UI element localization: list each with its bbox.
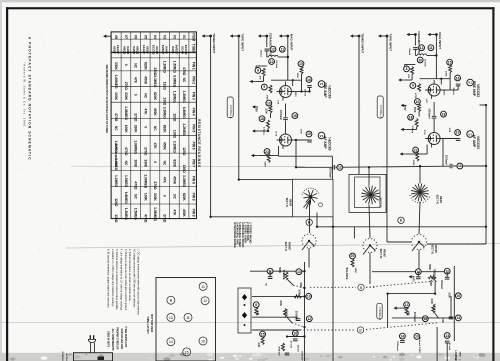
svg-text:100K: 100K — [298, 289, 300, 295]
svg-text:10: 10 — [267, 101, 271, 105]
svg-text:470K: 470K — [265, 95, 268, 101]
svg-text:MAG INPUT: MAG INPUT — [289, 34, 293, 51]
svg-text:1.5MEG: 1.5MEG — [124, 175, 128, 188]
svg-text:19: 19 — [307, 132, 311, 136]
svg-text:NC: NC — [163, 161, 167, 166]
svg-text:470Ω: 470Ω — [134, 181, 138, 190]
svg-text:270Ω: 270Ω — [134, 113, 138, 122]
svg-text:PIN 4: PIN 4 — [192, 108, 196, 116]
svg-text:6: 6 — [400, 219, 402, 223]
svg-text:RESISTANCE READINGS: RESISTANCE READINGS — [197, 119, 201, 167]
svg-text:TAPE INPUT: TAPE INPUT — [388, 34, 392, 52]
svg-text:TUBE: TUBE — [192, 44, 196, 53]
svg-text:NC: NC — [134, 63, 138, 68]
svg-text:6.8MEG: 6.8MEG — [182, 107, 186, 120]
svg-text:TUNER INPUT: TUNER INPUT — [212, 33, 216, 53]
svg-text:4. MONAURAL PHONO: 4. MONAURAL PHONO — [241, 222, 244, 247]
svg-text:470Ω: 470Ω — [143, 214, 147, 223]
svg-text:14: 14 — [456, 316, 460, 320]
svg-text:PIN 9: PIN 9 — [192, 209, 196, 217]
svg-text:100K: 100K — [448, 292, 450, 298]
svg-text:200mmf: 200mmf — [440, 280, 442, 289]
svg-text:20: 20 — [351, 254, 355, 258]
svg-text:PIN 3: PIN 3 — [192, 92, 196, 100]
svg-text:⊗: ⊗ — [169, 299, 172, 303]
svg-text:1.08MEG: 1.08MEG — [153, 207, 157, 221]
svg-text:TUNER INPUT: TUNER INPUT — [360, 33, 364, 53]
svg-text:450K: 450K — [163, 142, 167, 151]
svg-text:820K: 820K — [153, 92, 157, 101]
svg-text:AF AMP: AF AMP — [323, 136, 327, 149]
svg-text:470Ω: 470Ω — [124, 147, 128, 156]
svg-text:100K: 100K — [430, 298, 432, 304]
svg-text:16: 16 — [307, 78, 311, 82]
svg-text:18: 18 — [260, 117, 264, 121]
svg-text:NC: NC — [143, 93, 147, 98]
svg-text:330K: 330K — [143, 159, 147, 168]
svg-text:100K: 100K — [124, 125, 128, 134]
svg-text:.02 mfd: .02 mfd — [448, 342, 450, 350]
svg-text:8: 8 — [255, 303, 257, 307]
svg-text:TREBLE: TREBLE — [432, 269, 435, 279]
svg-text:PIN 5: PIN 5 — [192, 124, 196, 132]
svg-text:120Ω: 120Ω — [182, 147, 186, 156]
svg-text:14: 14 — [401, 334, 405, 338]
svg-text:IN SEQUENCE SHOWN: IN SEQUENCE SHOWN — [233, 222, 235, 248]
svg-text:270Ω: 270Ω — [153, 181, 157, 190]
svg-text:270Ω: 270Ω — [124, 82, 128, 91]
svg-text:130Ω: 130Ω — [114, 214, 118, 223]
svg-text:820K: 820K — [172, 159, 176, 168]
svg-text:450K: 450K — [153, 108, 157, 117]
svg-text:NC: NC — [172, 194, 176, 199]
svg-text:11: 11 — [281, 48, 285, 52]
svg-text:200mfd: 200mfd — [303, 89, 305, 97]
svg-text:1.08MEG: 1.08MEG — [143, 174, 147, 188]
svg-text:FRONT: FRONT — [287, 242, 290, 251]
svg-text:6BQ5: 6BQ5 — [122, 46, 126, 54]
svg-text:1.2MEG: 1.2MEG — [114, 175, 118, 188]
svg-text:330K: 330K — [134, 125, 138, 134]
svg-text:330K: 330K — [114, 62, 118, 71]
svg-text:PIN 2: PIN 2 — [192, 76, 196, 84]
svg-text:0: 0 — [153, 161, 157, 163]
svg-text:12AX7: 12AX7 — [142, 45, 146, 55]
svg-text:FRONT: FRONT — [434, 245, 437, 254]
svg-text:500K: 500K — [278, 267, 281, 273]
svg-text:47K: 47K — [134, 77, 138, 84]
svg-text:270Ω: 270Ω — [163, 214, 167, 223]
svg-text:100K: 100K — [296, 73, 298, 79]
svg-text:16: 16 — [293, 332, 297, 336]
svg-text:470Ω: 470Ω — [182, 67, 186, 76]
svg-text:15: 15 — [185, 350, 189, 354]
svg-text:12: 12 — [271, 48, 275, 52]
svg-text:6V6GT: 6V6GT — [161, 45, 165, 55]
svg-text:CERAMIC INPUT: CERAMIC INPUT — [268, 33, 272, 57]
svg-text:6V6GT: 6V6GT — [174, 45, 178, 55]
svg-text:*Howard W. Sams & Co. Inc. 196: *Howard W. Sams & Co. Inc. 1960 — [22, 63, 26, 127]
svg-text:100K: 100K — [134, 159, 138, 168]
svg-text:½ECC83: ½ECC83 — [328, 137, 332, 151]
svg-text:1. DC voltage measurements tak: 1. DC voltage measurements taken with va… — [137, 249, 140, 316]
svg-text:130Ω: 130Ω — [163, 97, 167, 106]
svg-text:47K: 47K — [172, 210, 176, 217]
svg-text:V1: V1 — [320, 82, 324, 86]
svg-text:1.08MEG: 1.08MEG — [124, 106, 128, 120]
svg-text:6.8MEG: 6.8MEG — [124, 192, 128, 205]
svg-text:V3: V3 — [163, 35, 167, 39]
svg-text:100K: 100K — [279, 300, 281, 306]
svg-text:330K: 330K — [124, 92, 128, 101]
svg-text:NC: NC — [114, 126, 118, 131]
svg-text:6EU7: 6EU7 — [145, 46, 149, 54]
svg-text:15: 15 — [261, 332, 265, 336]
svg-text:INTERLOCK: INTERLOCK — [61, 352, 63, 361]
svg-text:500K: 500K — [429, 280, 432, 286]
svg-text:1.2V: 1.2V — [276, 100, 278, 105]
svg-text:500K: 500K — [459, 352, 461, 358]
svg-text:1.2MEG: 1.2MEG — [172, 91, 176, 104]
svg-text:PIN 9: PIN 9 — [192, 193, 196, 201]
svg-text:0: 0 — [134, 94, 138, 96]
svg-text:9: 9 — [263, 85, 265, 89]
svg-text:6AV6: 6AV6 — [165, 46, 169, 54]
svg-text:12AX7: 12AX7 — [116, 45, 120, 55]
svg-text:0: 0 — [143, 126, 147, 128]
svg-text:NC: NC — [153, 126, 157, 131]
svg-text:10: 10 — [456, 294, 460, 298]
svg-text:.05 mfd: .05 mfd — [289, 340, 291, 348]
svg-text:13: 13 — [445, 334, 449, 338]
svg-text:100K 1W: 100K 1W — [300, 351, 302, 361]
svg-text:V4: V4 — [153, 35, 157, 39]
svg-text:1.2MEG: 1.2MEG — [182, 123, 186, 136]
svg-text:100V: 100V — [299, 129, 301, 134]
svg-text:47K: 47K — [153, 143, 157, 150]
svg-text:⊞: ⊞ — [187, 316, 190, 320]
svg-text:PIN 6: PIN 6 — [192, 142, 196, 150]
svg-text:BOTTOM VIEW: BOTTOM VIEW — [150, 314, 153, 333]
svg-text:ALL COMPONENTS: ALL COMPONENTS — [111, 329, 114, 351]
svg-text:ECC83: ECC83 — [184, 45, 188, 55]
svg-text:BALANCE: BALANCE — [345, 268, 348, 280]
svg-text:1.5MEG: 1.5MEG — [134, 208, 138, 221]
svg-text:820K: 820K — [182, 193, 186, 202]
svg-text:500K: 500K — [354, 268, 356, 274]
svg-text:SECT #1: SECT #1 — [431, 245, 434, 255]
svg-text:6.8MEG: 6.8MEG — [172, 75, 176, 88]
svg-text:12: 12 — [203, 299, 207, 303]
svg-text:V1: V1 — [320, 134, 324, 138]
svg-text:MEASURED FROM OUTPUT OF MULTIP: MEASURED FROM OUTPUT OF MULTIPLEX JACK O… — [105, 65, 108, 133]
svg-text:15: 15 — [299, 62, 303, 66]
svg-text:AC PLUG: AC PLUG — [65, 354, 68, 361]
svg-text:6AN8: 6AN8 — [132, 46, 136, 54]
svg-text:PIN 1: PIN 1 — [192, 62, 196, 70]
svg-text:SECT #2: SECT #2 — [379, 249, 382, 259]
svg-text:3.3K: 3.3K — [257, 342, 259, 347]
svg-text:4. Line voltage maintained at: 4. Line voltage maintained at 117 volts … — [119, 249, 122, 311]
svg-text:6AV6: 6AV6 — [171, 46, 175, 54]
svg-text:12: 12 — [338, 166, 342, 170]
svg-text:6EU7: 6EU7 — [113, 46, 117, 54]
svg-text:14: 14 — [169, 340, 173, 344]
svg-text:5. Nominal tolerance of compon: 5. Nominal tolerance of component values… — [115, 249, 118, 310]
svg-text:3300mmf 1.5KV: 3300mmf 1.5KV — [418, 337, 420, 354]
svg-text:V1: V1 — [182, 35, 186, 39]
svg-text:A PHOTOFACT STANDARD NOTATION: A PHOTOFACT STANDARD NOTATION SCHEMATIC — [27, 37, 31, 161]
svg-text:130Ω: 130Ω — [182, 165, 186, 174]
svg-text:TUBE LAYOUT: TUBE LAYOUT — [146, 316, 149, 334]
svg-text:2.2K: 2.2K — [256, 310, 258, 315]
svg-text:2000mmf: 2000mmf — [445, 155, 447, 165]
svg-text:180K: 180K — [299, 282, 301, 288]
svg-text:© SEE PARTS LIST: © SEE PARTS LIST — [124, 326, 127, 348]
svg-text:6. All controls at minimum, pr: 6. All controls at minimum, proper outpu… — [107, 249, 110, 308]
svg-text:450K: 450K — [143, 76, 147, 85]
svg-text:PIN 7: PIN 7 — [192, 159, 196, 167]
svg-text:FRONT: FRONT — [382, 249, 385, 258]
svg-text:V5: V5 — [143, 35, 147, 39]
svg-text:500K: 500K — [428, 264, 431, 270]
svg-text:CHANNEL B: CHANNEL B — [378, 307, 381, 321]
svg-text:V2: V2 — [172, 35, 176, 39]
svg-text:LOUDNESS: LOUDNESS — [454, 350, 457, 361]
svg-text:0: 0 — [124, 64, 128, 66]
svg-text:AC voltages measured with 1000: AC voltages measured with 1000 ohm per v… — [132, 249, 135, 308]
svg-text:8: 8 — [257, 69, 259, 73]
svg-text:REAR: REAR — [439, 196, 442, 203]
svg-text:½ECC83: ½ECC83 — [328, 85, 332, 99]
svg-text:ECC83: ECC83 — [151, 45, 155, 55]
svg-text:6. MONAURAL TAPE: 6. MONAURAL TAPE — [236, 222, 239, 245]
svg-text:2000mmf: 2000mmf — [295, 311, 297, 321]
svg-text:18: 18 — [293, 114, 297, 118]
svg-text:50K: 50K — [407, 312, 409, 317]
svg-text:FOR VALUES AND: FOR VALUES AND — [120, 329, 123, 350]
svg-text:1.08MEG: 1.08MEG — [114, 75, 118, 89]
svg-text:120Ω: 120Ω — [114, 198, 118, 207]
svg-text:13: 13 — [169, 316, 173, 320]
svg-text:CHANNEL A: CHANNEL A — [379, 105, 382, 119]
svg-text:SECT #1: SECT #1 — [284, 242, 287, 252]
svg-text:SECT #1: SECT #1 — [436, 195, 439, 205]
svg-text:12: 12 — [405, 303, 409, 307]
svg-text:1.08MEG: 1.08MEG — [134, 140, 138, 154]
svg-text:10: 10 — [270, 60, 274, 64]
svg-text:L5 6mh: L5 6mh — [275, 60, 277, 68]
svg-text:.05mfd: .05mfd — [296, 344, 298, 352]
svg-text:a variation of +-15% in voltag: a variation of +-15% in voltage and resi… — [111, 249, 114, 307]
svg-text:11: 11 — [201, 285, 205, 289]
svg-text:6CA4: 6CA4 — [181, 46, 185, 54]
svg-text:2000mmf: 2000mmf — [396, 341, 398, 351]
svg-text:130Ω: 130Ω — [172, 130, 176, 139]
svg-text:47K: 47K — [143, 109, 147, 116]
svg-text:3.3MEG: 3.3MEG — [163, 107, 167, 120]
svg-text:820K: 820K — [163, 125, 167, 134]
svg-text:2000mmf: 2000mmf — [279, 110, 281, 120]
svg-text:100V: 100V — [294, 92, 296, 98]
svg-text:SECT #1: SECT #1 — [285, 198, 288, 208]
svg-text:.05mfd: .05mfd — [259, 49, 261, 57]
svg-text:3. Measured values are from so: 3. Measured values are from socket pin t… — [124, 249, 127, 311]
svg-text:16.5V: 16.5V — [274, 131, 276, 137]
svg-text:6CA4: 6CA4 — [155, 46, 159, 54]
svg-text:1.2MEG: 1.2MEG — [124, 208, 128, 221]
svg-text:820K: 820K — [143, 62, 147, 71]
svg-text:V6: V6 — [134, 35, 138, 39]
svg-text:470Ω: 470Ω — [114, 113, 118, 122]
svg-text:3.3MEG: 3.3MEG — [153, 75, 157, 88]
svg-text:47K: 47K — [258, 76, 261, 80]
svg-text:120Ω: 120Ω — [172, 113, 176, 122]
svg-text:47K: 47K — [163, 177, 167, 184]
svg-text:2000mmf: 2000mmf — [329, 168, 331, 178]
svg-text:100K: 100K — [143, 193, 147, 202]
svg-text:450K: 450K — [172, 176, 176, 185]
svg-text:13: 13 — [297, 270, 301, 274]
svg-text:2000mmf: 2000mmf — [413, 312, 415, 322]
svg-text:1.5MEG: 1.5MEG — [182, 91, 186, 104]
svg-text:100K: 100K — [114, 92, 118, 101]
svg-text:500K: 500K — [263, 162, 265, 168]
svg-text:REAR: REAR — [288, 199, 291, 206]
svg-text:NC: NC — [182, 78, 186, 83]
svg-text:270Ω: 270Ω — [143, 147, 147, 156]
svg-text:1.5MEG: 1.5MEG — [172, 61, 176, 74]
svg-text:2. STEREO TAPE: 2. STEREO TAPE — [246, 222, 249, 241]
svg-text:V7: V7 — [124, 35, 128, 39]
svg-text:6BQ5: 6BQ5 — [136, 46, 140, 54]
svg-text:0: 0 — [163, 195, 167, 197]
svg-text:16: 16 — [201, 339, 205, 343]
svg-text:6AN8: 6AN8 — [126, 46, 130, 54]
svg-text:1.2MEG: 1.2MEG — [163, 61, 167, 74]
svg-text:PRE AMP: PRE AMP — [323, 83, 327, 99]
svg-text:PROPER TYPES OF: PROPER TYPES OF — [115, 327, 117, 350]
svg-text:NC NO CONNECTION: NC NO CONNECTION — [114, 143, 116, 167]
svg-text:TAPE INPUT: TAPE INPUT — [240, 34, 244, 52]
svg-text:BASS 1: BASS 1 — [433, 304, 436, 313]
svg-text:USED IN SETS: USED IN SETS — [107, 331, 109, 348]
svg-text:ITEM: ITEM — [192, 33, 196, 41]
svg-text:120Ω: 120Ω — [163, 82, 167, 91]
svg-text:100K: 100K — [265, 108, 267, 114]
svg-text:PIN 8: PIN 8 — [192, 176, 196, 184]
svg-text:12: 12 — [307, 317, 311, 321]
svg-text:300K 1W: 300K 1W — [277, 346, 279, 356]
svg-text:5. MONAURAL TUNER: 5. MONAURAL TUNER — [238, 222, 241, 247]
svg-text:13: 13 — [458, 164, 462, 168]
svg-text:330K: 330K — [153, 193, 157, 202]
svg-text:2. Socket connections are show: 2. Socket connections are shown as botto… — [128, 249, 131, 302]
svg-text:NC: NC — [124, 161, 128, 166]
svg-text:3.3MEG: 3.3MEG — [182, 175, 186, 188]
svg-text:10: 10 — [307, 295, 311, 299]
svg-text:450K: 450K — [182, 209, 186, 218]
svg-text:CHANNEL B: CHANNEL B — [229, 105, 232, 119]
svg-text:NC: NC — [134, 194, 138, 199]
svg-text:SECT #2: SECT #2 — [379, 198, 382, 208]
svg-text:3.3MEG: 3.3MEG — [172, 141, 176, 154]
svg-text:V8: V8 — [114, 35, 118, 39]
